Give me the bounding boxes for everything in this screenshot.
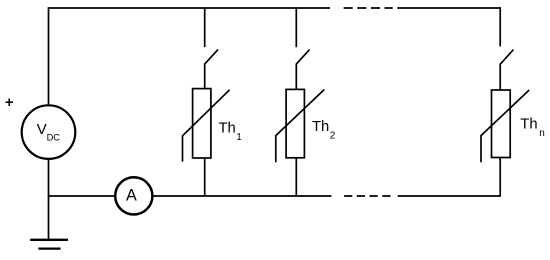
svg-text:+: + (5, 95, 13, 111)
thermistor Th2 strike line (276, 90, 324, 163)
wire Thn body to bottom rail (499, 158, 501, 197)
wire top rail dashed continuation (344, 7, 393, 9)
wire bottom rail: ammeter to Th2 (152, 195, 331, 197)
ammeter A1 (115, 177, 152, 214)
wire bottom rail right segment (398, 195, 501, 197)
svg-text:Th: Th (312, 119, 329, 135)
ground (48, 196, 50, 240)
wire Th2 switch to body (295, 64, 297, 90)
wire Th2 top drop (295, 8, 297, 47)
source V_DC (22, 105, 76, 159)
thermistor Thn strike line (481, 90, 529, 162)
wire bottom rail: junction to ammeter (48, 195, 115, 197)
switch Sn blade (501, 50, 514, 64)
label Th1 (219, 120, 243, 143)
wire Th1 switch to body (204, 64, 206, 89)
svg-text:1: 1 (236, 132, 242, 143)
svg-text:Th: Th (520, 117, 537, 133)
svg-text:Th: Th (219, 120, 236, 136)
wire Th2 body to bottom rail (295, 158, 297, 196)
wire left rail from top to source (48, 7, 50, 104)
thermistor Th2 body (286, 89, 304, 157)
svg-text:2: 2 (330, 131, 336, 142)
thermistor Th1 body (193, 89, 211, 158)
wire top rail right segment (397, 7, 500, 9)
wire Th1 top drop (204, 8, 206, 47)
thermistor Th1 strike line (183, 90, 230, 162)
label Th2 (312, 119, 336, 142)
wire Thn switch to body (499, 64, 501, 91)
wire source to bottom junction (48, 160, 50, 196)
wire top rail left segment (49, 7, 331, 9)
wire Thn right drop (499, 7, 501, 46)
wire bottom rail dashed continuation (344, 195, 390, 197)
svg-text:DC: DC (47, 133, 61, 143)
wire Th1 body to bottom rail (204, 158, 206, 196)
switch S1 blade (205, 50, 218, 64)
thermistor Thn body (492, 90, 511, 158)
label Thn (520, 117, 544, 139)
svg-text:n: n (539, 128, 545, 139)
svg-text:A: A (126, 187, 137, 205)
switch S2 blade (297, 50, 310, 64)
